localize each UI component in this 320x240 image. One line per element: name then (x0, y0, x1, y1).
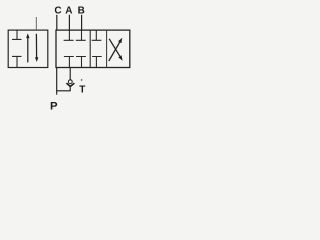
divider between third section and X section (106, 30, 108, 67)
pilot line above box A (35, 17, 37, 30)
blocked stub bottom P (center section) (64, 57, 74, 68)
up flow arrow in box A (26, 33, 29, 62)
down flow arrow in box A (35, 34, 38, 62)
blocked stub top B (center section) (76, 30, 86, 40)
dot above T (81, 79, 82, 81)
port line C (56, 15, 58, 30)
blocked stub bottom T (center section) (76, 57, 86, 68)
divider between center section and third section (89, 30, 91, 67)
background (0, 0, 137, 111)
port line B (81, 15, 83, 30)
port line P (down from box B bottom-left) (56, 68, 58, 95)
crossed arrow up-right in X section (109, 38, 123, 61)
check valve ball (68, 80, 72, 84)
blocked port stub, box A top-left (12, 30, 22, 39)
blocked stub top (third section) (92, 30, 102, 40)
wire from box B bottom to check valve (69, 68, 71, 81)
port line A (68, 15, 70, 30)
check valve seat (66, 83, 74, 86)
wire from seat to branch (69, 86, 71, 91)
svg-text:P: P (50, 101, 58, 111)
svg-text:B: B (78, 5, 85, 16)
blocked port stub, box A bottom-left (12, 56, 22, 67)
svg-text:T: T (79, 84, 85, 95)
valve box B (center + crossed positions) (56, 30, 130, 67)
blocked stub bottom (third section) (92, 57, 102, 68)
crossed arrow down-right in X section (109, 39, 122, 61)
svg-text:C: C (54, 5, 61, 16)
blocked stub top A (center section) (64, 30, 74, 40)
branch wire from P line to check valve (56, 90, 70, 92)
valve box A (left position: parallel arrows) (8, 30, 48, 67)
